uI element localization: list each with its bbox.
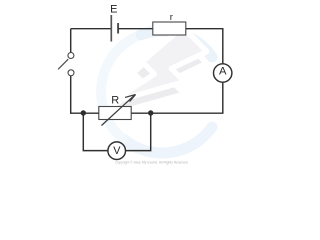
switch S1 <box>58 53 74 76</box>
wire resistor r to top-right corner and down <box>186 29 223 64</box>
watermark logo bolt <box>106 24 210 128</box>
svg-text:E: E <box>110 4 117 16</box>
svg-text:r: r <box>170 12 173 23</box>
battery E <box>111 15 118 42</box>
wire right junction to variable resistor R <box>131 112 151 114</box>
svg-text:V: V <box>113 145 121 157</box>
variable resistor R <box>99 95 136 126</box>
wire ammeter down to bottom-right corner then left <box>151 82 223 113</box>
node right junction <box>148 110 153 115</box>
svg-text:R: R <box>111 95 119 107</box>
node left junction <box>81 110 86 115</box>
wire top-left to battery <box>71 28 112 30</box>
svg-text:A: A <box>219 65 227 77</box>
wire variable resistor R to left junction <box>71 112 99 114</box>
voltmeter V1 <box>108 142 126 160</box>
wire bottom-left corner up to switch <box>70 76 72 114</box>
wire left junction down to voltmeter <box>83 113 108 151</box>
watermark logo bolt shadow <box>101 35 205 139</box>
wire battery to resistor r <box>118 28 153 30</box>
ammeter A1 <box>214 64 232 82</box>
svg-text:Copyright © Save My Exams. All: Copyright © Save My Exams. All Rights Re… <box>115 161 188 165</box>
watermark logo ring <box>101 31 212 153</box>
wire switch up to top-left corner <box>70 29 72 53</box>
resistor r <box>153 22 186 35</box>
wire voltmeter to right junction <box>126 113 151 151</box>
